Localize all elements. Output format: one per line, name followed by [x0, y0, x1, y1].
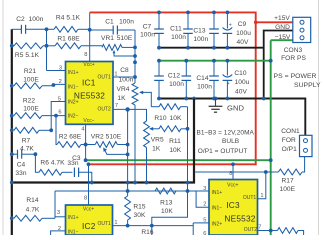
svg-text:4.7K: 4.7K [26, 207, 40, 214]
svg-text:R13: R13 [160, 200, 173, 207]
wire +15V bottom rail (red) [88, 163, 256, 165]
node R15 crossings [126, 181, 130, 185]
svg-text:FOR: FOR [282, 137, 296, 144]
resistor R4 [54, 26, 90, 32]
svg-text:8: 8 [84, 52, 87, 58]
node R17 left [264, 170, 268, 174]
svg-text:Vcc+: Vcc+ [83, 62, 94, 68]
node OUT1-VR4 top [133, 75, 137, 79]
svg-text:R15: R15 [133, 204, 146, 211]
svg-text:PS = POWER: PS = POWER [274, 73, 317, 80]
svg-text:100n: 100n [193, 36, 208, 43]
pin 8 IC3 [229, 171, 232, 177]
wire -15V rail (green) [159, 60, 271, 62]
pin 2 IC1 [59, 79, 62, 85]
node VR5 to bulb bus [145, 181, 149, 185]
capacitor C12 [182, 59, 192, 101]
label C3 [67, 155, 81, 167]
svg-text:OUT2: OUT2 [97, 107, 111, 113]
label R16 [141, 229, 154, 236]
node OUT2 junction [125, 107, 129, 111]
capacitor C3 [74, 168, 91, 183]
wire GND rail lower (black) [159, 99, 306, 136]
resistor R2 [56, 116, 86, 148]
wire -15V vertical (green) [270, 40, 272, 235]
pin 3 IC3 [203, 186, 206, 192]
svg-text:B1–B3 = 12V,20MA: B1–B3 = 12V,20MA [196, 129, 254, 136]
label R22 [23, 97, 39, 112]
svg-text:R4 5.1K: R4 5.1K [56, 15, 81, 22]
resistor R5 [12, 43, 47, 49]
svg-text:100n: 100n [169, 81, 184, 88]
wiper VR2 [103, 148, 127, 155]
svg-text:IN1+: IN1+ [68, 70, 79, 76]
pin 3 IC2 [57, 210, 60, 216]
svg-text:3: 3 [203, 186, 206, 192]
ground [209, 97, 223, 113]
label CON1 [281, 128, 300, 153]
svg-text:−15V: −15V [275, 34, 291, 41]
node +15V branch junction [254, 21, 258, 25]
wire ground bus left (black) [11, 29, 13, 235]
label R1 [57, 35, 80, 42]
resistor R14 [10, 215, 66, 221]
wire IC1 Vcc- stem [85, 124, 87, 160]
label R21 [23, 68, 39, 84]
pin 4 IC1 [81, 127, 84, 133]
pin 7 IC1 [115, 103, 118, 109]
wire IC1 OUT2 lead [113, 109, 147, 121]
node C3 to bulb bus [90, 181, 94, 185]
node IC2 Vcc+ to red rail [87, 162, 91, 166]
svg-text:CON3: CON3 [284, 47, 303, 54]
svg-text:+: + [229, 23, 232, 29]
svg-text:O/P1: O/P1 [282, 146, 298, 153]
node Vcc- stem junctions [84, 143, 88, 163]
svg-text:C14: C14 [196, 75, 209, 82]
svg-text:IN2+: IN2+ [212, 222, 223, 228]
label C14 [196, 75, 212, 91]
svg-text:IC2: IC2 [82, 221, 96, 231]
svg-text:100n: 100n [29, 16, 44, 23]
svg-text:1K: 1K [117, 95, 126, 102]
svg-text:C11: C11 [170, 26, 182, 33]
page edge line right [318, 0, 320, 235]
svg-text:IN1−: IN1− [212, 206, 223, 212]
capacitor C8 [154, 59, 164, 101]
wire bulb bus (black) [12, 99, 194, 183]
wire IC3 OUT2 lead [258, 230, 271, 232]
wire GND rail upper (black) [159, 47, 264, 49]
potentiometer VR4 [132, 83, 138, 105]
svg-text:100n: 100n [171, 34, 186, 41]
node R5-R1 junction [10, 44, 48, 48]
svg-text:R21: R21 [24, 68, 37, 75]
svg-text:2: 2 [58, 226, 61, 232]
label R13 [160, 200, 173, 215]
capacitor C11 [183, 11, 193, 50]
pin 2 IC2 [58, 226, 61, 232]
node Vcc stem R4 [88, 28, 92, 32]
capacitor C14 [209, 59, 219, 101]
node IC1 pin6 [54, 114, 58, 118]
svg-text:IN1+: IN1+ [68, 215, 79, 221]
svg-text:C8: C8 [120, 67, 129, 74]
wire -15V bottom rail (green) [86, 159, 271, 161]
pin 3 IC1 [59, 65, 62, 71]
wire feedback vertical [134, 30, 136, 83]
svg-text:C13: C13 [193, 28, 206, 35]
label C8 [119, 67, 134, 84]
wire IC2 OUT1 net [113, 223, 210, 235]
potentiometer VR5 [144, 121, 150, 183]
potentiometer VR2 [86, 142, 128, 148]
svg-text:R17: R17 [281, 177, 294, 184]
capacitor C10 [223, 59, 233, 101]
svg-text:7: 7 [258, 224, 261, 230]
wiper VR4 [139, 91, 151, 107]
label VR4 [117, 86, 130, 102]
pin 7 IC3 [258, 224, 261, 230]
label C11 [170, 26, 186, 42]
svg-text:33n: 33n [15, 170, 26, 177]
pin 8 IC1 [84, 52, 87, 58]
svg-text:R16: R16 [141, 229, 154, 235]
node mid vertical to bulb bus [133, 181, 137, 185]
wiper VR5 with R11 lead [149, 127, 159, 131]
wire IC2 Vcc+ stem [88, 164, 90, 205]
note PS [274, 73, 322, 89]
label +15V [274, 15, 290, 22]
svg-text:10K: 10K [169, 147, 181, 154]
label C1 [105, 19, 134, 26]
wire -15V branch to CON3 (green) [271, 39, 294, 41]
label C7 [140, 24, 155, 39]
svg-text:R1 68E: R1 68E [57, 35, 80, 42]
node mid-right bulb bus crossing [186, 181, 190, 185]
wire IC2 pin2 lead [51, 231, 66, 235]
svg-text:VR4: VR4 [117, 86, 130, 93]
op-amp IC1 [66, 62, 114, 125]
wire left bracket net [54, 191, 56, 218]
resistor R21 [10, 83, 66, 89]
label C2 [16, 16, 43, 23]
resistor R1 [47, 43, 103, 49]
svg-text:O/P1 = OUTPUT: O/P1 = OUTPUT [198, 148, 248, 155]
potentiometer VR1 [102, 45, 135, 51]
node VR2 right [126, 143, 130, 157]
svg-text:IC1: IC1 [82, 78, 96, 88]
svg-text:GND: GND [227, 104, 244, 113]
wire +15V right vertical (red) [255, 12, 257, 166]
wire IC1 pin3 lead [47, 70, 66, 72]
node bulb bus to GND rail [192, 97, 196, 101]
node A [45, 27, 49, 31]
label C9 [236, 21, 251, 46]
wire IC3 Vcc+ stem [232, 164, 234, 179]
svg-text:6: 6 [58, 110, 61, 116]
wire R13 net [55, 190, 209, 192]
svg-text:C1: C1 [105, 19, 114, 26]
note output [198, 148, 248, 155]
svg-text:GND: GND [275, 24, 290, 31]
capacitor C2 [12, 25, 47, 34]
svg-text:10K: 10K [161, 208, 173, 215]
svg-text:40V: 40V [237, 39, 249, 46]
capacitor C4 [10, 150, 36, 159]
connector CON1 [300, 135, 313, 156]
svg-text:100E: 100E [23, 106, 39, 113]
label C4 [15, 162, 26, 178]
pin 5 IC1 [58, 96, 61, 102]
svg-text:R22: R22 [23, 97, 36, 104]
svg-text:3: 3 [57, 210, 60, 216]
svg-text:C2: C2 [16, 16, 25, 23]
wire mid vertical below VR4 [134, 105, 136, 183]
pin 1 IC1 [114, 72, 117, 78]
svg-text:R11: R11 [169, 138, 181, 145]
svg-text:R5 5.1K: R5 5.1K [15, 52, 40, 59]
node OUT2 to green [269, 229, 273, 233]
svg-text:1: 1 [114, 220, 117, 226]
capacitor C13 [209, 11, 219, 50]
svg-text:FOR PS: FOR PS [281, 55, 306, 62]
node R2-VR2 [84, 143, 88, 147]
svg-text:C9: C9 [238, 21, 247, 28]
pin 1 IC3 [260, 193, 263, 199]
wire IC1 Vcc+ stem [89, 12, 91, 61]
label R14 [26, 197, 40, 214]
label VR5 [151, 137, 164, 153]
node bus to bulb wire [10, 181, 14, 185]
label R7 [20, 138, 34, 153]
wiper VR1 [113, 50, 135, 56]
label VR2 [91, 133, 122, 140]
svg-text:OUT2: OUT2 [244, 227, 258, 233]
wire IC3 pin2 bracket [196, 191, 209, 207]
label R6 [40, 159, 65, 166]
label C13 [193, 28, 208, 44]
resistor R15 [125, 109, 131, 225]
pin 6 IC1 [58, 110, 61, 116]
svg-text:2: 2 [59, 79, 62, 85]
capacitor C1 [90, 26, 135, 35]
svg-text:100n: 100n [119, 77, 134, 84]
svg-text:1K: 1K [152, 146, 161, 153]
resistor R16 [151, 226, 153, 235]
label VR1 [101, 35, 133, 42]
svg-text:OUT1: OUT1 [97, 221, 111, 227]
wire GND to CON3 (black) [264, 31, 294, 99]
svg-text:6: 6 [203, 231, 206, 235]
svg-text:SUPPLY: SUPPLY [294, 82, 321, 89]
node R21 out [52, 83, 56, 87]
svg-text:100n: 100n [119, 19, 134, 26]
wire IC1 OUT1 lead [113, 76, 135, 78]
label -15V [275, 34, 291, 41]
svg-text:BULB: BULB [222, 138, 239, 145]
svg-text:33n: 33n [67, 160, 78, 167]
svg-text:CON1: CON1 [281, 128, 300, 135]
pin 5 IC3 [203, 217, 206, 223]
node R11 right [186, 127, 190, 131]
op-amp IC2 [66, 205, 113, 235]
svg-text:IN2−: IN2− [68, 114, 79, 120]
svg-text:R6 4.7K: R6 4.7K [40, 159, 65, 166]
svg-text:OUT1: OUT1 [243, 195, 257, 201]
svg-text:510E: 510E [117, 35, 133, 42]
capacitor C7 [154, 11, 164, 50]
label R17 [279, 177, 295, 193]
node C4 out [34, 152, 38, 156]
svg-text:Vcc+: Vcc+ [83, 206, 94, 212]
svg-text:NE5532: NE5532 [224, 213, 255, 223]
wire node A to R4 [47, 28, 55, 30]
node GND rail junction [262, 97, 266, 101]
wire C4 to R6 [35, 154, 39, 172]
svg-text:8: 8 [229, 171, 232, 177]
resistor R22 [10, 113, 66, 119]
svg-text:100n: 100n [140, 31, 155, 38]
node OUT1 junctions [126, 224, 154, 228]
svg-text:7: 7 [115, 103, 118, 109]
node VR1 right [133, 46, 137, 65]
wire +15V branch to CON3 (red) [256, 21, 294, 23]
label GND wire [275, 24, 290, 31]
pin 6 IC3 [203, 231, 206, 237]
node IC3 Vcc+ to red rail [231, 162, 235, 166]
page edge line left [2, 0, 4, 235]
svg-text:R10: R10 [154, 115, 167, 122]
node -15V bottom rail junction [269, 158, 273, 162]
label R15 [133, 204, 146, 220]
svg-text:IN2+: IN2+ [68, 100, 79, 106]
svg-text:R14: R14 [26, 197, 39, 204]
pin 8 IC2 label [84, 196, 87, 202]
resistor R18 [271, 228, 304, 235]
svg-text:3: 3 [59, 65, 62, 71]
svg-text:100n: 100n [197, 84, 212, 91]
resistor R6 [39, 169, 72, 175]
wire IC3 OUT1 lead [258, 172, 266, 199]
svg-text:30K: 30K [134, 212, 146, 219]
resistor R11 [159, 126, 188, 132]
resistor R7 [10, 127, 51, 133]
pin 2 IC3 [203, 201, 206, 207]
svg-text:10K: 10K [170, 115, 182, 122]
wire IC1 pin5 bracket [51, 102, 65, 131]
wire mid-right vertical [152, 107, 188, 226]
svg-text:+: + [227, 81, 230, 87]
svg-text:Vcc+: Vcc+ [227, 182, 238, 188]
svg-text:C4: C4 [17, 162, 26, 169]
svg-text:100E: 100E [279, 186, 295, 193]
label R5 [15, 52, 40, 59]
svg-text:100u: 100u [235, 79, 250, 86]
label C12 [168, 73, 184, 89]
svg-text:8: 8 [84, 196, 87, 202]
svg-text:OUT1: OUT1 [97, 75, 111, 81]
svg-text:4: 4 [81, 127, 84, 133]
svg-text:VR1: VR1 [101, 35, 114, 42]
svg-text:C10: C10 [234, 70, 247, 77]
svg-text:Vcc−: Vcc− [83, 118, 94, 124]
svg-text:VR5: VR5 [151, 137, 164, 144]
label R4 [56, 15, 81, 22]
wire R17 net [195, 171, 266, 173]
wire node A vertical [46, 29, 48, 70]
svg-text:40V: 40V [235, 88, 247, 95]
label C10 [234, 70, 249, 95]
svg-text:IN1+: IN1+ [212, 190, 223, 196]
svg-text:1: 1 [260, 193, 263, 199]
svg-text:100u: 100u [236, 30, 251, 37]
svg-text:+15V: +15V [274, 15, 290, 22]
capacitor C9 [223, 11, 233, 50]
svg-text:IN1−: IN1− [68, 229, 79, 235]
resistor R13 [155, 188, 176, 194]
label R10 [154, 115, 182, 122]
svg-text:R2 68E: R2 68E [59, 133, 82, 140]
connector CON3 [293, 17, 311, 42]
wire +15V top rail (red) [90, 11, 256, 13]
svg-text:NE5532: NE5532 [74, 90, 105, 100]
svg-text:5: 5 [203, 217, 206, 223]
svg-text:5: 5 [58, 96, 61, 102]
node R13 net junctions [126, 189, 190, 193]
node -15V rail junction [269, 59, 273, 63]
note bulbs [196, 129, 254, 145]
label R11 [169, 138, 182, 154]
resistor R17 [266, 157, 305, 175]
pin 1 IC2 [114, 220, 117, 226]
svg-text:2: 2 [203, 201, 206, 207]
svg-text:100E: 100E [23, 77, 39, 84]
svg-text:IC3: IC3 [226, 200, 240, 210]
svg-text:C7: C7 [143, 24, 152, 31]
node R7 out [49, 128, 53, 132]
svg-text:R7: R7 [22, 138, 31, 145]
label GND [227, 104, 244, 113]
op-amp IC3 [209, 180, 258, 236]
resistor R10 [151, 104, 187, 110]
label R2 [59, 133, 82, 140]
svg-text:C12: C12 [168, 73, 181, 80]
svg-text:VR2 510E: VR2 510E [91, 133, 122, 140]
label CON3 [281, 47, 306, 62]
